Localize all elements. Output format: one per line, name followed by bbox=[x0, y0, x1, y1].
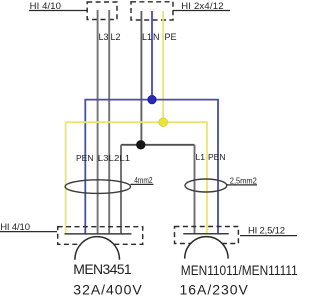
svg-text:L1: L1 bbox=[196, 152, 206, 162]
terminal bus X1 bbox=[65, 233, 132, 235]
wire PE (yellow, from F2 down to node) bbox=[162, 11, 164, 122]
wire label-line 2,5mm2 bbox=[226, 184, 257, 186]
svg-text:L3: L3 bbox=[99, 32, 109, 42]
node L1 (black junction dot) bbox=[136, 140, 145, 149]
svg-text:4mm2: 4mm2 bbox=[134, 175, 153, 185]
label MEN3451 bbox=[73, 261, 132, 277]
wire N (blue, from F2 down to node) bbox=[151, 11, 153, 100]
label HI 4/10 (bottom-left box) bbox=[0, 222, 30, 233]
socket X1 arc (32A outlet semicircle) bbox=[75, 237, 120, 260]
wire L2 (grey, straight down to 32A socket) bbox=[108, 10, 110, 234]
label L1 N PE bbox=[142, 32, 177, 42]
svg-text:PEN: PEN bbox=[208, 152, 225, 162]
wire L3 (grey, straight down to 32A socket) bbox=[97, 10, 99, 234]
wire L1 distribution (dark horizontal) bbox=[121, 144, 195, 146]
terminal bus X2 bbox=[183, 233, 228, 235]
label MEN11011/MEN11111 bbox=[181, 262, 298, 278]
label HI 2,5/12 (bottom-right box) bbox=[248, 226, 285, 237]
svg-text:L2: L2 bbox=[111, 32, 121, 42]
wire label-line to fuse box F1 bbox=[29, 10, 87, 12]
svg-text:2,5mm2: 2,5mm2 bbox=[230, 176, 257, 186]
label 32A/400V bbox=[73, 281, 142, 297]
fuse box F1 (HI 4/10, dashed enclosure) bbox=[87, 2, 117, 20]
label 2,5mm2 bbox=[230, 176, 257, 186]
svg-text:32A/400V: 32A/400V bbox=[73, 281, 142, 297]
junction box X2 (dashed, 16A socket) bbox=[175, 227, 239, 244]
label PEN (right cable) bbox=[208, 152, 225, 162]
svg-text:PE: PE bbox=[165, 32, 177, 42]
wire N distribution (blue horizontal + drops to both sockets) bbox=[85, 100, 218, 234]
svg-text:L3L2L1: L3L2L1 bbox=[98, 153, 131, 163]
label L1 (right cable) bbox=[196, 152, 206, 162]
cable W2 (ellipse, 3x2,5mm2) bbox=[185, 179, 227, 192]
label HI 2x4/12 bbox=[181, 1, 223, 12]
label L3L2L1 (left cable) bbox=[98, 153, 131, 163]
svg-text:L1: L1 bbox=[142, 32, 152, 42]
wire L1 drop to 32A socket bbox=[120, 145, 122, 234]
label HI 4/10 (top feeder) bbox=[30, 1, 61, 12]
label 16A/230V bbox=[180, 281, 249, 297]
wire L1 (dark grey, from F2 down to node) bbox=[140, 11, 142, 145]
node N (blue junction dot) bbox=[148, 95, 156, 103]
wire L1 drop to 16A socket bbox=[194, 145, 196, 234]
cable W1 (ellipse, 5x4mm2) bbox=[65, 180, 130, 194]
svg-text:16A/230V: 16A/230V bbox=[180, 281, 249, 297]
label PEN (left cable) bbox=[76, 153, 93, 163]
junction box X1 (dashed, 32A socket) bbox=[58, 227, 143, 245]
wire label-line to socket box bbox=[0, 231, 57, 233]
node PE (yellow junction dot) bbox=[159, 118, 168, 127]
svg-text:N: N bbox=[153, 32, 160, 42]
svg-text:PEN: PEN bbox=[76, 153, 93, 163]
wire label-line from fuse box F2 bbox=[173, 10, 230, 12]
svg-text:MEN11011/MEN11111: MEN11011/MEN11111 bbox=[181, 262, 298, 278]
label L3 L2 bbox=[99, 32, 121, 42]
wire label-line from socket box X2 bbox=[240, 235, 297, 237]
wire label-line 4mm2 bbox=[131, 183, 154, 185]
label 4mm2 bbox=[134, 175, 153, 185]
wire PE distribution (yellow horizontal + drops to both sockets) bbox=[66, 122, 207, 234]
socket X2 arc (16A outlet semicircle) bbox=[185, 237, 228, 259]
svg-text:MEN3451: MEN3451 bbox=[73, 261, 132, 277]
fuse box F2 (HI 2x4/12, dashed enclosure) bbox=[131, 2, 173, 20]
